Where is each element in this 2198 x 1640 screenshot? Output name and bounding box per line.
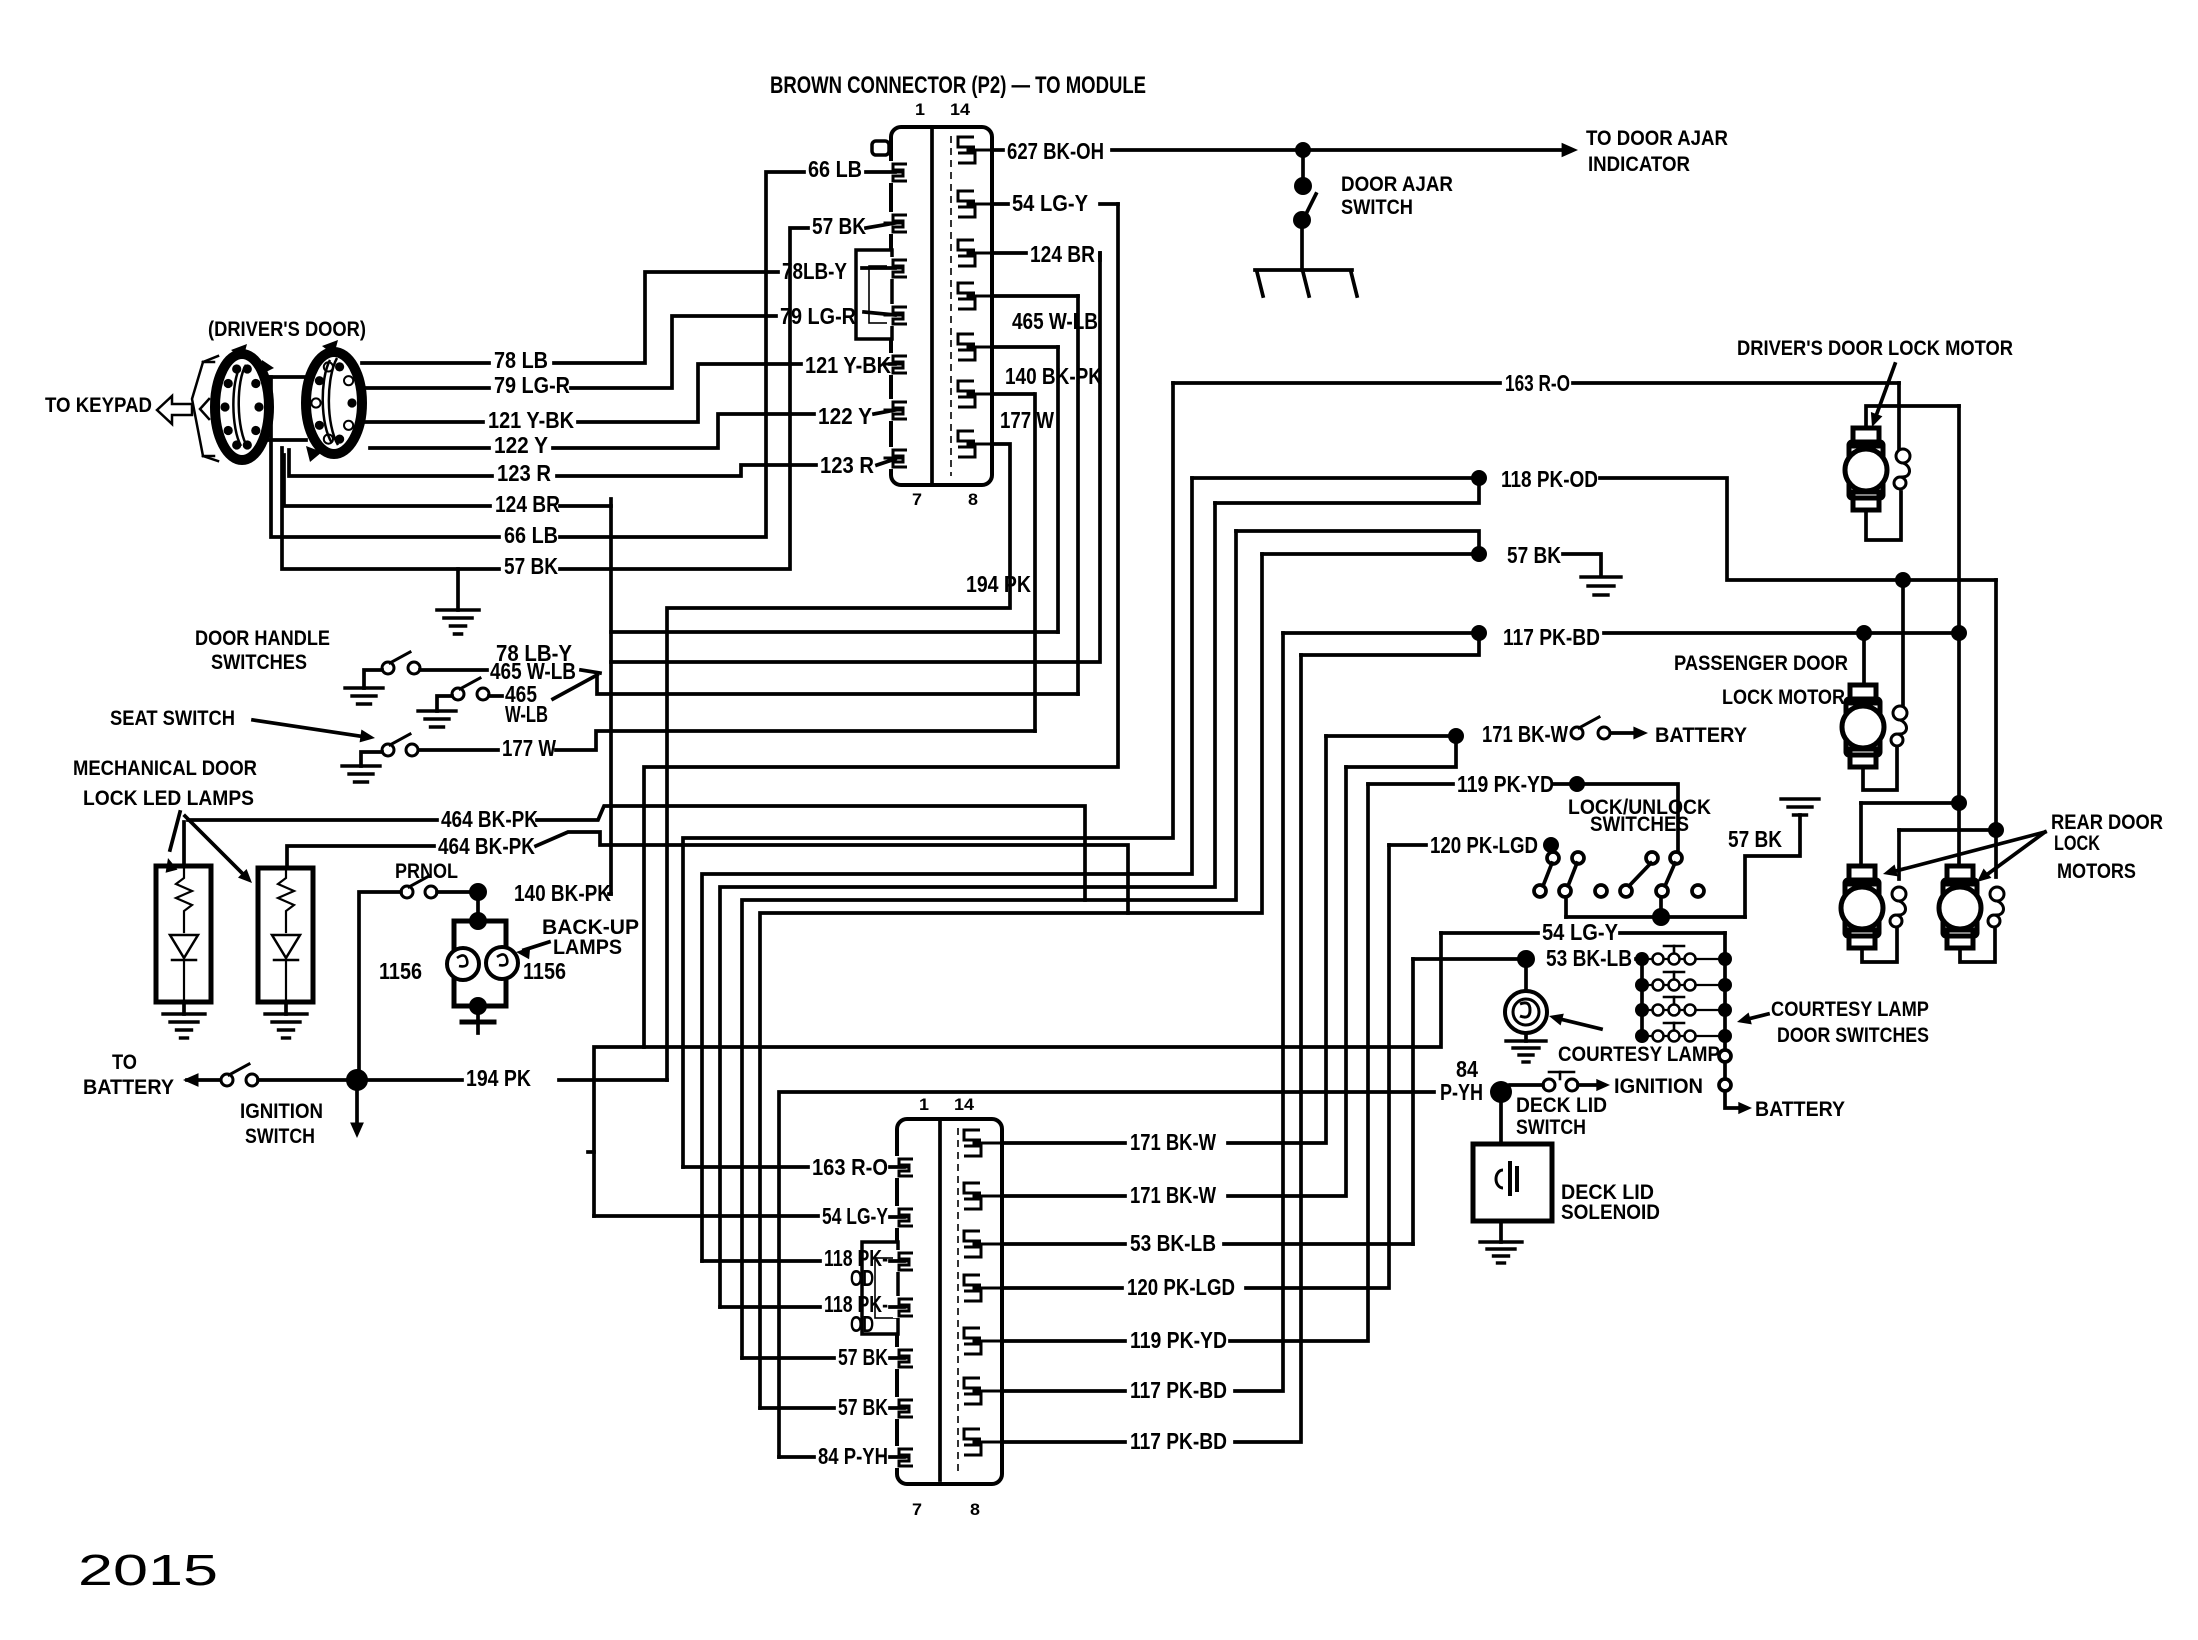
back-up lamps label <box>542 916 639 959</box>
wire door switches left bus <box>1640 959 1644 1036</box>
top connector P2 label <box>770 72 1146 99</box>
net 118 PK-OD bottom label 2 <box>824 1291 888 1337</box>
wire 118 PK-OD branch 2 riser <box>720 503 1215 1307</box>
wire 121 Y-BK <box>358 364 801 422</box>
connector P2 right pins 8-14 <box>958 137 996 457</box>
svg-text:TO DOOR AJAR: TO DOOR AJAR <box>1586 127 1728 150</box>
node 121 Y-BK label (to pin 5) <box>805 352 891 378</box>
wire 122 Y to pin6 <box>874 410 895 414</box>
svg-text:REAR DOOR: REAR DOOR <box>2051 811 2163 834</box>
svg-text:LOCK: LOCK <box>2054 832 2100 855</box>
wire 84 P-YH to bottom pin <box>779 1455 904 1459</box>
connector P2 body (brown connector to module) <box>856 127 992 485</box>
net 177 W pin label <box>1000 407 1054 433</box>
net 171 BK-W bottom label 1 <box>1130 1129 1216 1155</box>
svg-text:BROWN CONNECTOR (P2) — TO MODU: BROWN CONNECTOR (P2) — TO MODULE <box>770 72 1146 99</box>
svg-text:120 PK-LGD: 120 PK-LGD <box>1430 832 1538 858</box>
net 171 BK-W bottom label 2 <box>1130 1182 1216 1208</box>
ground LED lamp 1 <box>163 1014 205 1038</box>
door handle switch 2 ground lead <box>437 696 452 711</box>
svg-text:DECK LID: DECK LID <box>1516 1094 1607 1117</box>
junction 117 PK-BD at passenger motor <box>1856 625 1872 641</box>
wire driver motor bottom loop <box>1866 492 1901 540</box>
junction door ajar <box>1295 142 1311 158</box>
wire 124 BR keypad row <box>284 455 490 506</box>
wire 78 LB <box>362 272 778 363</box>
junction 53 BK-LB <box>1517 950 1535 968</box>
svg-text:194 PK: 194 PK <box>466 1065 531 1091</box>
node 78LB-Y label (to pin 3) <box>782 258 847 284</box>
svg-text:117 PK-BD: 117 PK-BD <box>1503 624 1600 650</box>
courtesy lamp <box>1505 991 1547 1033</box>
svg-text:SEAT SWITCH: SEAT SWITCH <box>110 707 235 730</box>
wire 465 W-LB pin <box>992 294 1078 298</box>
ground LED lamp 2 <box>265 1014 307 1038</box>
node 66 LB label (to pin 1) <box>808 156 862 182</box>
svg-text:117 PK-BD: 117 PK-BD <box>1130 1428 1227 1454</box>
courtesy lamp label arrow <box>1549 1014 1601 1029</box>
wire 79 LG-R to pin4 <box>864 312 895 315</box>
ground seat switch <box>342 766 380 782</box>
rear door lock motor right <box>1939 866 1981 948</box>
LED lamps label arrows <box>166 812 252 883</box>
svg-text:57 BK: 57 BK <box>812 213 866 239</box>
wire 123 R <box>289 450 816 476</box>
driver's door lock motor <box>1845 428 1887 510</box>
wire rear-left brush feed <box>1899 828 1996 832</box>
deck lid solenoid label <box>1561 1181 1660 1224</box>
wire 57 BK row <box>1262 552 1471 556</box>
wire rear-left motor bottom loop <box>1862 928 1897 962</box>
svg-text:OD: OD <box>850 1265 874 1291</box>
svg-text:163 R-O: 163 R-O <box>1505 370 1570 396</box>
svg-text:464 BK-PK: 464 BK-PK <box>438 833 535 859</box>
node 78 LB label <box>494 347 548 373</box>
wire 57 BK keypad row <box>282 448 499 569</box>
rear motor right brushes <box>1988 887 2004 927</box>
wire 119 PK-YD row <box>1368 782 1453 786</box>
seat switch <box>382 734 418 756</box>
net 465 W-LB pin label <box>1012 308 1098 334</box>
battery cutout switch <box>1571 717 1610 739</box>
wire keypad halves link top <box>269 375 306 379</box>
net 118 PK-OD label <box>1501 466 1598 492</box>
svg-text:57 BK: 57 BK <box>1728 826 1782 852</box>
wire 464 BK-PK 1 <box>188 806 1085 900</box>
svg-text:121 Y-BK: 121 Y-BK <box>805 352 891 378</box>
svg-text:BATTERY: BATTERY <box>83 1076 174 1099</box>
net 117 PK-BD bottom label 2 <box>1130 1428 1227 1454</box>
net 120 PK-LGD label <box>1430 832 1538 858</box>
svg-text:124 BR: 124 BR <box>1030 241 1095 267</box>
node 122 Y label (to pin 6) <box>818 403 872 429</box>
junction 120 PK-LGD <box>1543 837 1559 853</box>
wire 140 BK-PK trunk <box>1056 347 1060 632</box>
net 465 W-LB label row2 <box>505 681 548 727</box>
lock/unlock switches label <box>1568 796 1711 836</box>
wire 163 R-O to bottom pin <box>683 1165 904 1169</box>
wire passenger motor bottom loop <box>1863 747 1897 790</box>
svg-text:57 BK: 57 BK <box>838 1394 888 1420</box>
svg-text:122 Y: 122 Y <box>818 403 872 429</box>
wire 465 W-LB row2 <box>489 675 597 699</box>
wire 627 BK-OH <box>992 148 1296 152</box>
wire 465 W-LB row1 <box>420 670 600 673</box>
node 124 BR label <box>495 491 560 517</box>
svg-text:DRIVER'S DOOR LOCK MOTOR: DRIVER'S DOOR LOCK MOTOR <box>1737 337 2013 360</box>
wire 177 W row <box>420 731 1035 750</box>
passenger door lock motor <box>1842 685 1884 767</box>
wire 124 BR pin stub <box>992 253 1100 260</box>
wire 119 PK-YD to switches <box>1554 784 1678 850</box>
wire 163 R-O row <box>1173 381 1899 385</box>
deck lid switch label <box>1516 1094 1607 1139</box>
door ajar switch label <box>1341 173 1453 219</box>
courtesy lamp label <box>1558 1043 1720 1066</box>
wire 79 LG-R <box>362 316 776 388</box>
battery label right <box>1655 724 1747 747</box>
junction at passenger brush feed <box>1895 572 1911 588</box>
net 119 PK-YD bottom label <box>1130 1327 1227 1353</box>
wire 57 BK to ground <box>1563 554 1601 575</box>
net 118 PK-OD bottom label 1 <box>824 1245 888 1291</box>
wire 120 PK-LGD row <box>1389 843 1426 847</box>
deck lid switch <box>1510 1072 1578 1091</box>
wire keypad halves link bottom <box>269 438 306 442</box>
svg-text:P-YH: P-YH <box>1440 1079 1483 1105</box>
svg-text:LOCK LED LAMPS: LOCK LED LAMPS <box>83 787 254 810</box>
svg-text:177 W: 177 W <box>1000 407 1054 433</box>
wire ignition to junction <box>258 1078 346 1082</box>
net 124 BR pin label <box>1030 241 1095 267</box>
wire 117 PK-BD row <box>1283 631 1471 635</box>
svg-text:DOOR AJAR: DOOR AJAR <box>1341 173 1453 196</box>
ground under 57 BK keypad <box>437 610 479 634</box>
bottom connector pin numbers <box>912 1095 980 1519</box>
wire 57 BK branch 1 riser <box>742 531 1236 1358</box>
wire 124 BR cross row <box>611 253 1100 662</box>
connector P2 left pins 1-7 <box>885 161 909 469</box>
node 122 Y label <box>494 432 548 458</box>
door handle switches label <box>195 627 330 674</box>
wire 78LB-Y to pin3 <box>862 266 895 270</box>
courtesy lamp door switches <box>1635 946 1732 1043</box>
wire 171 BK-W branch 2 <box>1346 736 1456 767</box>
node 123 R label <box>497 460 551 486</box>
mechanical door lock LED lamp 2 <box>258 868 313 1002</box>
wire 140 BK-PK cross row <box>611 630 1058 634</box>
driver's door lock motor label <box>1737 337 2013 360</box>
net 54 LG-Y bottom label <box>822 1203 888 1229</box>
net 177 W label <box>502 735 556 761</box>
svg-text:123 R: 123 R <box>820 452 874 478</box>
driver's door caption <box>208 318 366 341</box>
svg-text:84 P-YH: 84 P-YH <box>818 1443 888 1469</box>
junction lock/unlock common <box>1652 908 1670 926</box>
mechanical door lock LED lamp 1 <box>156 866 211 1002</box>
wire 117 PK-BD branch 2 <box>1301 633 1479 655</box>
junction 117 PK-BD at col <box>1951 625 1967 641</box>
svg-text:53 BK-LB: 53 BK-LB <box>1546 945 1632 971</box>
wire rear-left motor drop <box>1859 803 1863 866</box>
courtesy door switches label arrow <box>1737 1013 1768 1025</box>
wire 465 W-LB trunk <box>1076 296 1080 694</box>
mechanical door lock LED lamps label <box>73 757 257 810</box>
svg-text:TO KEYPAD: TO KEYPAD <box>45 394 152 417</box>
net 627 BK-OH label <box>1007 138 1104 164</box>
PRNOL label <box>395 860 458 883</box>
wire 53 BK-LB row <box>1413 957 1642 961</box>
svg-text:SWITCH: SWITCH <box>1516 1116 1586 1139</box>
net 119 PK-YD label <box>1457 771 1554 797</box>
to keypad label <box>45 394 152 417</box>
junction 84 P-YH <box>1490 1081 1512 1103</box>
svg-text:54 LG-Y: 54 LG-Y <box>822 1203 888 1229</box>
wire 194 PK from pin <box>667 444 1010 1080</box>
wire courtesy lamp to ground <box>1524 1033 1528 1041</box>
node 57 BK label <box>504 553 558 579</box>
ground courtesy lamp <box>1506 1041 1546 1062</box>
door handle switch 1 ground lead <box>364 670 382 688</box>
rear motor left brushes <box>1890 887 1906 927</box>
wire 177 W trunk <box>1033 394 1037 731</box>
wire 123 R to pin7 <box>877 459 895 465</box>
svg-text:57 BK: 57 BK <box>504 553 558 579</box>
svg-text:57 BK: 57 BK <box>838 1344 888 1370</box>
svg-text:1: 1 <box>919 1095 929 1114</box>
wire 57 BK branch 2 riser <box>760 554 1262 1408</box>
seat switch ground lead <box>361 752 382 766</box>
svg-text:118 PK-OD: 118 PK-OD <box>1501 466 1598 492</box>
svg-text:TO: TO <box>112 1051 137 1074</box>
net 57 BK right label <box>1507 542 1561 568</box>
svg-text:66 LB: 66 LB <box>808 156 862 182</box>
net 163 R-O bottom label <box>812 1154 888 1180</box>
wire deck lid switch arrow <box>1578 1079 1610 1091</box>
svg-text:COURTESY LAMP: COURTESY LAMP <box>1558 1043 1720 1066</box>
svg-text:7: 7 <box>912 490 922 509</box>
driver motor brushes <box>1894 449 1910 489</box>
net 57 BK bottom label 1 <box>838 1344 888 1370</box>
wire 66 LB to pin1 <box>866 170 895 174</box>
svg-text:BATTERY: BATTERY <box>1755 1098 1845 1121</box>
wire 54 LG-Y row <box>1441 931 1725 935</box>
wire 118 PK-OD branch 1 riser <box>702 478 1192 1261</box>
wire 84 P-YH to solenoid <box>1499 1092 1503 1144</box>
rear motors label arrows <box>1883 832 2045 882</box>
svg-text:627 BK-OH: 627 BK-OH <box>1007 138 1104 164</box>
wire 57 BK branch 2 row <box>1236 531 1479 554</box>
net 117 PK-BD bottom label 1 <box>1130 1377 1227 1403</box>
svg-text:IGNITION: IGNITION <box>240 1100 323 1123</box>
wire 118 PK-OD row <box>1192 476 1471 480</box>
wire 53 BK-LB riser <box>1411 959 1415 1244</box>
net 140 BK-PK label <box>514 880 611 906</box>
keypad rotary connector half B <box>306 340 362 462</box>
net 464 BK-PK label 2 <box>438 833 535 859</box>
svg-text:DOOR HANDLE: DOOR HANDLE <box>195 627 330 650</box>
svg-text:1156: 1156 <box>523 958 566 984</box>
wire solenoid to ground <box>1499 1221 1503 1242</box>
battery feed chain <box>1719 1036 1752 1114</box>
svg-text:14: 14 <box>954 1095 975 1114</box>
net 53 BK-LB label <box>1546 945 1632 971</box>
ground door handle switch 2 <box>418 711 456 727</box>
svg-text:140 BK-PK: 140 BK-PK <box>1005 363 1102 389</box>
door handle switch 1 <box>382 652 420 674</box>
svg-text:171 BK-W: 171 BK-W <box>1130 1129 1216 1155</box>
back-up lamps bridge <box>447 901 518 1033</box>
deck lid solenoid <box>1473 1144 1552 1221</box>
wire PRNOL to junction <box>437 890 470 894</box>
svg-text:SWITCH: SWITCH <box>1341 196 1413 219</box>
lock/unlock switches <box>1534 852 1704 917</box>
net 84 P-YH bottom label <box>818 1443 888 1469</box>
svg-text:123 R: 123 R <box>497 460 551 486</box>
svg-text:117 PK-BD: 117 PK-BD <box>1130 1377 1227 1403</box>
wire 117 PK-BD bottom 1 <box>1002 633 1283 1391</box>
net 163 R-O label <box>1505 370 1570 396</box>
wire 118 PK-OD to bottom pin 2 <box>720 1305 904 1309</box>
svg-text:119 PK-YD: 119 PK-YD <box>1457 771 1554 797</box>
net 54 LG-Y right label <box>1542 919 1618 945</box>
svg-text:122 Y: 122 Y <box>494 432 548 458</box>
svg-text:177 W: 177 W <box>502 735 556 761</box>
wire 163 R-O riser <box>683 383 1173 1167</box>
svg-text:LAMPS: LAMPS <box>553 936 622 959</box>
to battery label <box>83 1051 174 1099</box>
wire 57 BK to bottom pin 2 <box>760 1406 904 1410</box>
wire 84 P-YH riser <box>779 1092 1434 1457</box>
bottom connector body (white connector to module) <box>862 1119 1002 1484</box>
svg-text:171 BK-W: 171 BK-W <box>1130 1182 1216 1208</box>
svg-text:140 BK-PK: 140 BK-PK <box>514 880 611 906</box>
svg-text:8: 8 <box>968 490 978 509</box>
wire passenger motor top feed <box>1862 633 1866 683</box>
svg-text:1: 1 <box>915 100 925 119</box>
node 66 LB label <box>504 522 558 548</box>
wire to door ajar indicator <box>1311 143 1578 158</box>
net 117 PK-BD label <box>1503 624 1600 650</box>
wire 464 BK-PK 1 to LED lamp 1 <box>182 822 186 864</box>
junction 140 BK-PK <box>469 883 487 901</box>
wire door switches right bus <box>1723 933 1727 1036</box>
svg-text:79 LG-R: 79 LG-R <box>494 372 570 398</box>
wire 194 PK row <box>367 1078 667 1082</box>
junction 119 PK-YD <box>1569 776 1585 792</box>
wire 66 LB keypad row <box>271 377 499 537</box>
wire 464 BK-PK 2 <box>536 832 1128 913</box>
wire 54 LG-Y trunk <box>644 204 1118 1047</box>
wire LED lamp 1 to ground <box>182 1002 186 1014</box>
wire lock common to ground <box>1745 815 1800 917</box>
wire rear-right motor bottom loop <box>1960 928 1995 962</box>
wire 54 LG-Y riser <box>594 933 1441 1216</box>
node 121 Y-BK label <box>488 407 574 433</box>
wire LED lamp 2 to ground <box>284 1002 288 1014</box>
wire 171 BK-W row <box>1326 734 1448 738</box>
wire driver motor top loop <box>1866 406 1959 428</box>
net 84 P-YH label <box>1440 1056 1483 1105</box>
wire 140 BK-PK elbow <box>609 892 611 896</box>
wire 66 LB to trunk <box>560 172 804 537</box>
net 57 BK bottom label 2 <box>838 1394 888 1420</box>
svg-text:120 PK-LGD: 120 PK-LGD <box>1127 1274 1235 1300</box>
wire 118 PK-OD to bottom pin 1 <box>702 1259 904 1263</box>
net 54 LG-Y label <box>1012 190 1088 216</box>
wire 465 W-LB merged row <box>597 673 1078 694</box>
svg-text:PRNOL: PRNOL <box>395 860 458 883</box>
keypad rotary connector half A <box>215 344 274 460</box>
svg-text:MOTORS: MOTORS <box>2057 860 2136 883</box>
page number 2015 <box>78 1546 218 1595</box>
net 194 PK top label <box>966 571 1031 597</box>
to keypad arrow <box>157 356 218 461</box>
wire 53 BK-LB bottom <box>1002 1242 1413 1246</box>
svg-text:54 LG-Y: 54 LG-Y <box>1012 190 1088 216</box>
svg-text:W-LB: W-LB <box>505 701 548 727</box>
wire 140 BK-PK pin <box>992 345 1058 349</box>
bottom connector right pins 8-14 <box>964 1130 1002 1455</box>
svg-text:163 R-O: 163 R-O <box>812 1154 888 1180</box>
wire 118 PK-OD branch 2 <box>1215 478 1479 503</box>
node 79 LG-R label (to pin 4) <box>780 303 856 329</box>
wire 120 PK-LGD bottom <box>1002 845 1389 1288</box>
wire 117 PK-BD bottom 2 <box>1002 655 1301 1442</box>
wire PRNOL left <box>359 892 401 1070</box>
wire 54 LG-Y top <box>992 202 1118 206</box>
wire 171 BK-W bottom 1 <box>1002 736 1326 1143</box>
net 53 BK-LB bottom label <box>1130 1230 1216 1256</box>
seat switch label <box>110 707 235 730</box>
svg-text:SWITCHES: SWITCHES <box>1590 813 1689 836</box>
wire 57 BK to pin2 <box>866 223 895 228</box>
wire 120 PK-LGD to switches <box>1551 845 1553 852</box>
wire 121 Y-BK to pin5 <box>890 362 895 366</box>
junction 194 PK <box>346 1069 368 1091</box>
wire 57 BK to bottom pin 1 <box>742 1356 904 1360</box>
svg-text:2015: 2015 <box>78 1546 218 1595</box>
wire lock/unlock common <box>1566 915 1745 919</box>
junction 171 BK-W <box>1448 728 1464 744</box>
svg-text:LOCK MOTOR: LOCK MOTOR <box>1722 686 1845 709</box>
PRNOL switch <box>401 876 437 898</box>
back-up lamps label arrow <box>516 942 549 959</box>
svg-text:124 BR: 124 BR <box>495 491 560 517</box>
wire 464 BK-PK 2 to lamp <box>287 846 434 864</box>
junction 117 PK-BD <box>1471 625 1487 641</box>
junction right column B <box>1988 822 2004 838</box>
net 140 BK-PK pin label <box>1005 363 1102 389</box>
node 79 LG-R label <box>494 372 570 398</box>
battery label bottom <box>1755 1098 1845 1121</box>
ground door handle switch 1 <box>345 688 383 704</box>
svg-text:IGNITION: IGNITION <box>1614 1075 1703 1098</box>
ignition switch <box>221 1064 258 1086</box>
net 464 BK-PK label 1 <box>441 806 538 832</box>
net 78 LB-Y label <box>496 640 572 666</box>
wire 57 BK ground drop <box>456 569 460 610</box>
svg-text:MECHANICAL DOOR: MECHANICAL DOOR <box>73 757 257 780</box>
svg-text:66 LB: 66 LB <box>504 522 558 548</box>
door ajar switch <box>1255 158 1357 296</box>
wire 163 R-O to driver motor brush <box>1897 383 1901 449</box>
svg-text:78 LB: 78 LB <box>494 347 548 373</box>
wire 54 LG-Y to bottom pin <box>594 1216 904 1217</box>
svg-text:119 PK-YD: 119 PK-YD <box>1130 1327 1227 1353</box>
wire 124 BR to trunk <box>560 504 611 508</box>
svg-text:COURTESY LAMP: COURTESY LAMP <box>1771 998 1929 1021</box>
